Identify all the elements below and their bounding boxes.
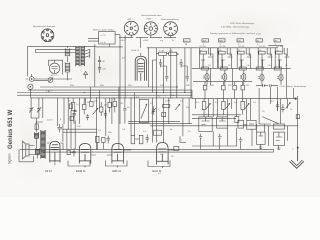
resistor R8 bbox=[163, 104, 170, 107]
label socket V2 bbox=[128, 18, 133, 21]
junction dots IF area bbox=[119, 46, 185, 98]
wire tube bases bbox=[85, 150, 175, 168]
svg-text:Anordnung d. Kontakte: Anordnung d. Kontakte bbox=[33, 25, 56, 28]
stage 1 resistor Rb bbox=[202, 67, 209, 70]
label value 8 bbox=[60, 119, 62, 121]
switch position box S3 bbox=[219, 39, 226, 42]
resistor R16 bbox=[241, 101, 245, 109]
af tube V8 envelope bbox=[79, 144, 91, 164]
resistor R1 bbox=[159, 52, 167, 55]
cluster left of V8 bbox=[67, 149, 76, 157]
capacitor C2 bbox=[98, 56, 101, 66]
label value 2x8 bbox=[77, 126, 81, 128]
potentiometer arrow P5 bbox=[206, 103, 210, 108]
stage 3 wires bbox=[237, 48, 251, 68]
capacitor C15 bbox=[159, 59, 162, 67]
output tube box U1 bbox=[199, 117, 212, 131]
label value 50 bbox=[271, 101, 274, 103]
svg-text:0,1 50: 0,1 50 bbox=[276, 46, 283, 48]
wire right verticals bbox=[259, 87, 298, 161]
wire top-left antenna bus bbox=[28, 46, 96, 76]
junction dot IF bbox=[177, 54, 178, 55]
svg-text:ECH 11: ECH 11 bbox=[132, 50, 140, 52]
label tube V9 bbox=[113, 169, 122, 173]
field coil L4 bbox=[36, 149, 40, 155]
band switch contacts bbox=[85, 49, 90, 58]
svg-text:4,07 Whlg - Gleichrichterspg: 4,07 Whlg - Gleichrichterspg. bbox=[221, 26, 250, 29]
capacitor C8 bbox=[151, 107, 155, 115]
piezo triangle bbox=[84, 71, 88, 78]
resistor R18 bbox=[296, 115, 299, 119]
wire coil links bbox=[63, 46, 72, 80]
wire lower right bus bbox=[20, 146, 274, 152]
wire jack row bbox=[34, 79, 63, 80]
wire center stubs bbox=[101, 98, 125, 124]
label value 10k bbox=[186, 107, 190, 109]
label bus tag bbox=[46, 90, 53, 93]
svg-text:b c d: b c d bbox=[101, 42, 107, 44]
label value 311 bbox=[246, 85, 250, 87]
label S6 bbox=[275, 40, 278, 45]
band switch box bbox=[99, 31, 115, 44]
label value 50 bbox=[68, 101, 71, 103]
resistor R20 bbox=[69, 104, 72, 109]
label stage 3 values bbox=[238, 46, 250, 67]
resistor R13 bbox=[241, 85, 245, 90]
label cluster V10 bbox=[158, 154, 174, 175]
stage 1 extra wires bbox=[201, 48, 213, 68]
text mains rating line2 bbox=[221, 26, 250, 29]
label tube V10 bbox=[153, 169, 162, 173]
wire right mid verticals bbox=[196, 99, 288, 146]
output tube box U4 bbox=[247, 120, 256, 129]
stage 1 resistor Ra bbox=[200, 51, 207, 54]
switch position box S2 bbox=[202, 39, 209, 42]
label stage 1 values bbox=[200, 46, 212, 67]
label value 0,1 bbox=[143, 131, 147, 133]
junction dot arrow stem bbox=[292, 147, 299, 151]
label value 0,1 bbox=[98, 130, 102, 132]
capacitor C6 bbox=[73, 111, 76, 118]
L mark bbox=[180, 136, 186, 142]
resistor R6 bbox=[108, 102, 112, 107]
stage 2 resistor Rb bbox=[220, 67, 227, 70]
wire R6 leads bbox=[109, 98, 111, 112]
label stage 4 values bbox=[259, 46, 271, 67]
label value 309 bbox=[210, 85, 214, 87]
label box note bbox=[122, 58, 126, 60]
wire right of transformer bbox=[63, 111, 75, 150]
wire main hf bus lines bbox=[17, 87, 296, 99]
wire band switch leads bbox=[88, 35, 123, 47]
tube V6 converter envelope bbox=[135, 56, 146, 80]
heater capacitor C9 bbox=[256, 84, 268, 87]
svg-text:EBF 11: EBF 11 bbox=[113, 169, 122, 173]
output tube box U6 grid cap bbox=[273, 124, 284, 129]
svg-text:Genius 651 W: Genius 651 W bbox=[8, 109, 14, 149]
label value 50k bbox=[171, 95, 175, 97]
label value 1k bbox=[290, 109, 293, 111]
resistor R21 bbox=[70, 116, 73, 120]
switch position box S1 bbox=[184, 39, 191, 42]
svg-text:Wellenschalter Stellg: Wellenschalter Stellg bbox=[93, 29, 114, 32]
svg-text:a-f: a-f bbox=[158, 173, 161, 175]
svg-text:EF/M 11: EF/M 11 bbox=[76, 169, 86, 173]
label S3 bbox=[219, 40, 224, 45]
label small note bbox=[256, 34, 261, 36]
trimmer capacitor C1 bbox=[48, 78, 53, 83]
resistor R22 bbox=[174, 147, 179, 151]
label L mark bbox=[182, 140, 184, 142]
stage 2 wires bbox=[218, 48, 232, 68]
label value 0,1 bbox=[215, 102, 219, 104]
wire right resistor leads bbox=[205, 82, 243, 99]
potentiometer arrow P4 bbox=[286, 103, 290, 109]
resistor R19 bbox=[35, 124, 38, 130]
stage 5 wires bbox=[268, 46, 286, 69]
label socket pin values bbox=[120, 39, 175, 42]
label value 307 bbox=[160, 85, 164, 87]
label stage 5 values bbox=[276, 46, 288, 67]
rectifier tube V7 bbox=[50, 141, 60, 162]
label value 0,5 bbox=[122, 129, 126, 131]
svg-text:EF 13: EF 13 bbox=[51, 75, 58, 77]
svg-text:Ingelen: Ingelen bbox=[8, 153, 12, 164]
label value 305 bbox=[100, 85, 104, 87]
label tube V8 bbox=[76, 169, 86, 173]
tube base loop V10 bbox=[148, 161, 170, 167]
label value 2k bbox=[87, 102, 90, 104]
label value 0,2 bbox=[158, 96, 162, 98]
label value 0,5 bbox=[104, 105, 108, 107]
potentiometer arrow P7 bbox=[245, 103, 249, 108]
resistor R5 bbox=[90, 101, 94, 106]
label mains voltage bbox=[47, 120, 53, 122]
stage 5 resistor Rb bbox=[274, 67, 281, 70]
stage 4 wires bbox=[258, 48, 272, 68]
stage 5 resistor Ra bbox=[276, 51, 283, 54]
wire lower mid horizontals bbox=[63, 121, 298, 132]
switch position box S4 bbox=[237, 39, 244, 42]
ground jack J2 bbox=[28, 84, 33, 98]
svg-text:220 V: 220 V bbox=[47, 120, 53, 122]
junction dot right bus end bbox=[295, 98, 297, 100]
tube base loop V8 bbox=[68, 161, 90, 167]
label value 304 bbox=[70, 85, 74, 87]
transformer T1 oscillator windings bbox=[76, 47, 85, 67]
label band switch bbox=[93, 29, 114, 44]
cathode marks lower right bbox=[199, 134, 243, 144]
potentiometer arrow P1 bbox=[93, 108, 98, 114]
stage 4 resistor Rb bbox=[256, 67, 263, 70]
wire field coil links bbox=[37, 118, 43, 159]
wire diagonal crossing bbox=[259, 117, 278, 124]
stage 3 resistor Rb bbox=[239, 67, 246, 70]
label value 25 bbox=[262, 111, 265, 113]
stage 1 coil oval bbox=[205, 70, 209, 85]
label S2 bbox=[203, 40, 207, 45]
label tube V6 bbox=[132, 50, 140, 52]
label value 306 bbox=[128, 85, 132, 87]
earth arrow bbox=[290, 146, 304, 168]
wire speaker leads bbox=[19, 146, 36, 162]
stage 2 extra wires bbox=[221, 48, 233, 68]
label tube V5 bbox=[51, 75, 58, 77]
wire IF inner links bbox=[153, 60, 188, 93]
stage 4 resistor Ra bbox=[259, 51, 266, 54]
stage 5 coil oval bbox=[279, 70, 283, 85]
heater capacitor C10 bbox=[270, 84, 279, 87]
resistor R14 bbox=[202, 101, 206, 109]
stage 5 oval filament bbox=[277, 75, 281, 80]
wire vertical feeders left-mid bbox=[95, 35, 125, 124]
resistor R15 bbox=[222, 101, 226, 109]
volume potentiometer box P2 bbox=[139, 99, 148, 122]
resistor R12 bbox=[233, 85, 237, 90]
wire R7 leads bbox=[114, 98, 116, 112]
wire socket row baseline bbox=[119, 35, 176, 48]
wire output cathode drops bbox=[201, 125, 279, 150]
svg-text:t.408: t.408 bbox=[143, 39, 149, 42]
capacitor C7 bbox=[86, 114, 89, 120]
field coil L3 bbox=[35, 132, 39, 138]
resistor R3 bbox=[71, 102, 75, 110]
stage 4 oval filament bbox=[258, 75, 262, 80]
stage 3 oval filament bbox=[240, 75, 244, 80]
svg-text:AZ 12: AZ 12 bbox=[45, 169, 52, 173]
label socket V4 bbox=[161, 18, 179, 21]
text note line3 bbox=[210, 32, 255, 35]
potentiometer arrow P3 bbox=[175, 104, 180, 110]
svg-text:EM4: EM4 bbox=[147, 19, 152, 21]
potentiometer arrow P6 bbox=[226, 103, 230, 108]
stage 5 extra wires bbox=[278, 48, 290, 68]
svg-text:a 1 2: a 1 2 bbox=[101, 35, 107, 37]
label R1 bbox=[159, 50, 164, 52]
output tube box U3 bbox=[238, 120, 244, 128]
wire mixer frame bbox=[49, 60, 63, 74]
wire R4 leads bbox=[83, 98, 85, 114]
cluster between V8 V9 bbox=[96, 136, 110, 150]
tube V5 mixer circle bbox=[49, 60, 59, 73]
stage 2 coil oval bbox=[223, 70, 227, 85]
label R2 bbox=[169, 50, 173, 52]
cluster left of V10 bbox=[131, 135, 149, 144]
label S5 bbox=[257, 40, 260, 45]
af tube V9 envelope bbox=[112, 144, 124, 164]
svg-text:Gleichrichterteil oben: Gleichrichterteil oben bbox=[141, 14, 162, 17]
capacitor C13 bbox=[58, 124, 63, 132]
junction dots center bbox=[36, 92, 243, 150]
label S1 bbox=[184, 40, 188, 45]
label value 5k bbox=[127, 107, 130, 109]
label value 30k bbox=[94, 101, 98, 103]
resistor R23 bbox=[100, 107, 103, 112]
coil L1 antenna winding bbox=[65, 48, 70, 56]
capacitor C18 bbox=[186, 73, 189, 81]
label value 310 bbox=[228, 85, 232, 87]
label value 25 bbox=[188, 131, 191, 133]
label socket V3 bbox=[141, 14, 162, 21]
coil L2 antenna winding bbox=[65, 62, 70, 72]
label value 1M bbox=[112, 99, 115, 101]
capacitor C19 bbox=[104, 110, 107, 118]
svg-text:0,1 50: 0,1 50 bbox=[219, 46, 226, 48]
resistor R17 bbox=[235, 117, 239, 123]
label value 50 bbox=[121, 103, 124, 105]
stage 3 coil oval bbox=[242, 70, 246, 85]
stage 3 extra wires bbox=[240, 48, 252, 68]
label value 0,5 bbox=[180, 101, 184, 103]
svg-text:6,3V~ Heizg. Skalenlampe: 6,3V~ Heizg. Skalenlampe bbox=[281, 86, 308, 88]
label S4 bbox=[238, 40, 242, 45]
svg-text:0,1 50: 0,1 50 bbox=[200, 46, 207, 48]
label value 0,1 bbox=[136, 97, 140, 99]
stage 4 coil oval bbox=[260, 70, 264, 85]
tube socket V1 top view bbox=[41, 29, 54, 42]
label stage 2 values bbox=[219, 46, 231, 67]
resistor R2 bbox=[169, 52, 177, 55]
title Ingelen small vertical bbox=[8, 153, 12, 164]
switch position box S6 bbox=[274, 39, 281, 42]
tube socket V2 top view bbox=[124, 21, 138, 35]
trimmer capacitor C4 bbox=[29, 105, 33, 115]
wire IF links bbox=[157, 54, 178, 98]
antenna jack J1 bbox=[26, 74, 35, 81]
trimmer capacitor C5 bbox=[37, 105, 41, 115]
wire IF top bus bbox=[141, 48, 278, 98]
text mains rating line1 bbox=[228, 23, 255, 25]
tube socket V4 top view bbox=[164, 22, 178, 36]
output tube box U5 bbox=[257, 132, 266, 144]
wire rectifier leads bbox=[47, 143, 63, 165]
label value 0,1 bbox=[253, 102, 257, 104]
svg-text:~ 220V 50 Hz Wechselspg.: ~ 220V 50 Hz Wechselspg. bbox=[228, 23, 255, 25]
resistor R4 bbox=[83, 104, 87, 109]
stage 1 oval filament bbox=[203, 75, 207, 80]
label socket V1 bbox=[33, 25, 56, 28]
junction dot center bbox=[176, 86, 177, 87]
wire right section verticals bbox=[210, 48, 286, 99]
stage 4 extra wires bbox=[261, 48, 273, 68]
wire lower right links bbox=[192, 99, 243, 119]
svg-text:0,1 50: 0,1 50 bbox=[238, 46, 245, 48]
stage 2 oval filament bbox=[221, 75, 225, 80]
svg-text:0,1 50: 0,1 50 bbox=[259, 46, 266, 48]
svg-text:1 AF 7: 1 AF 7 bbox=[46, 90, 53, 93]
label heater bbox=[281, 86, 308, 88]
af tube V10 envelope bbox=[157, 143, 169, 165]
capacitor C11 bbox=[276, 101, 279, 110]
resistor R9 bbox=[162, 113, 166, 117]
capacitor C3 bbox=[98, 66, 101, 73]
svg-text:Schaltg. gemessen m. Röhrenvol: Schaltg. gemessen m. Röhrenvoltm., wechs… bbox=[210, 32, 255, 35]
wire bus mid-right bbox=[192, 68, 291, 81]
output tube box U6 bbox=[273, 132, 284, 145]
label value 6k bbox=[170, 129, 173, 131]
label C2 bbox=[102, 61, 105, 63]
power transformer T2 bbox=[41, 130, 45, 159]
label rectifier V7 bbox=[45, 169, 52, 173]
capacitor C12 bbox=[281, 104, 284, 112]
wire center verticals bbox=[43, 87, 189, 150]
capacitor C20 bbox=[123, 105, 126, 113]
label value 50k bbox=[108, 132, 112, 134]
label value 10 bbox=[150, 103, 153, 105]
label value 0,1 bbox=[196, 102, 200, 104]
resistor R10 bbox=[203, 85, 207, 90]
tube socket V3 top view bbox=[144, 22, 157, 35]
label value 308 bbox=[186, 85, 190, 87]
capacitor C17 bbox=[180, 59, 183, 67]
label C3 bbox=[102, 68, 106, 70]
label value 0,1M bbox=[165, 101, 170, 103]
cathode marks U5 U6 bbox=[259, 144, 281, 149]
switch position box S5 bbox=[256, 39, 263, 42]
svg-text:m.off: m.off bbox=[256, 34, 261, 36]
output tube box U2 bbox=[217, 117, 228, 128]
stage 1 wires bbox=[200, 48, 214, 68]
title Genius 651 W vertical bbox=[8, 109, 14, 149]
svg-text:0,1M: 0,1M bbox=[165, 101, 170, 103]
resistor R11 bbox=[222, 85, 226, 90]
svg-text:0,1M: 0,1M bbox=[159, 50, 164, 52]
capacitor C14 bbox=[74, 110, 77, 111]
svg-text:Röhrenanordnung: Röhrenanordnung bbox=[161, 18, 179, 21]
resistor R7 bbox=[113, 101, 117, 106]
stage 2 resistor Ra bbox=[219, 51, 226, 54]
capacitor C16 bbox=[165, 73, 168, 81]
stage 3 resistor Ra bbox=[238, 51, 245, 54]
loudspeaker LS1 bbox=[22, 141, 29, 159]
label value 0,1 bbox=[234, 102, 238, 104]
label value 0,1 bbox=[77, 104, 81, 106]
tube base loop V9 bbox=[106, 161, 128, 167]
coil box L5 bbox=[154, 130, 162, 135]
wire trimmer feeders bbox=[31, 98, 39, 118]
